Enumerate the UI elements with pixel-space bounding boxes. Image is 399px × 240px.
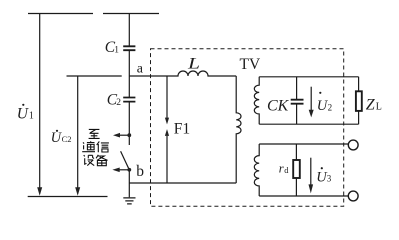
voltage arrow U3 [310, 158, 312, 185]
capacitor CK plates [291, 100, 304, 104]
wire top line left [28, 13, 93, 15]
load impedance ZL box [356, 91, 362, 111]
damping resistor rd branch [295, 144, 297, 196]
secondary loop 2 bottom wire [259, 195, 348, 197]
svg-text:3: 3 [327, 174, 332, 184]
svg-text:U: U [17, 105, 30, 122]
dashed box TV [151, 49, 344, 207]
switch blade [121, 151, 130, 170]
secondary loop 1 top wire [259, 76, 358, 78]
capacitor C2 [123, 98, 135, 102]
capacitor CK branch [296, 77, 298, 124]
wire C1 to C2 through node a [128, 50, 130, 97]
wire node a to TV with inductor L [129, 71, 236, 76]
transformer secondary winding 2 [254, 144, 259, 196]
wire node b to ground [128, 170, 130, 198]
svg-text:r: r [279, 162, 284, 176]
junction dot b [127, 168, 131, 172]
hanzi 至 [89, 129, 100, 138]
svg-text:L: L [187, 55, 200, 72]
arrowhead F1 down [165, 118, 169, 125]
hanzi 设 [84, 155, 95, 166]
arrowhead U1 [37, 187, 42, 195]
spark gap F1 upper electrode [166, 76, 168, 118]
wire HV vertical to C1 [128, 14, 130, 47]
wire mid tap horizontal [67, 75, 122, 77]
svg-text:2: 2 [116, 98, 121, 108]
wire primary bottom [129, 182, 236, 184]
label rd [279, 162, 290, 176]
svg-text:CK: CK [267, 98, 290, 115]
hanzi 通 [82, 141, 95, 151]
arrowhead UC2 [75, 187, 80, 195]
label C1 [105, 39, 119, 56]
wire C2 to switch contact [128, 102, 130, 145]
hanzi 信 [97, 141, 109, 152]
secondary loop 1 bottom wire [259, 123, 358, 125]
voltage arrow U2 [310, 87, 312, 110]
svg-text:b: b [136, 163, 144, 180]
svg-text:2: 2 [328, 103, 333, 113]
terminal circle lower [348, 191, 358, 201]
spark gap F1 lower electrode [166, 136, 168, 183]
ground symbol [123, 198, 135, 204]
arrowhead tap upper [113, 133, 120, 138]
secondary loop 2 top wire [259, 143, 348, 145]
label U1 [17, 104, 34, 123]
wire top line right [103, 13, 159, 15]
svg-text:TV: TV [240, 56, 261, 73]
secondary loop 1 right edge [358, 77, 360, 124]
label U3 [316, 167, 332, 185]
svg-text:F1: F1 [174, 121, 190, 138]
capacitor C1 [123, 46, 135, 50]
label UC2 [51, 130, 72, 146]
svg-text:L: L [376, 102, 382, 113]
voltage arrow U1 line [39, 14, 41, 189]
svg-text:a: a [137, 61, 144, 76]
arrowhead U2 [309, 110, 314, 118]
junction dot upper tap [127, 133, 131, 137]
arrowhead tap lower [112, 168, 119, 173]
wire bottom reference line [28, 196, 108, 198]
transformer primary winding [236, 76, 241, 183]
svg-text:1: 1 [114, 45, 119, 55]
transformer secondary winding 1 [254, 77, 259, 124]
hanzi 备 [96, 155, 108, 166]
svg-text:Z: Z [366, 96, 376, 113]
svg-text:1: 1 [29, 111, 34, 122]
wire tap arrow lower shaft [120, 169, 130, 171]
label ZL [366, 96, 382, 113]
svg-text:d: d [284, 165, 289, 175]
svg-text:C2: C2 [62, 134, 72, 144]
voltage arrow UC2 line [77, 76, 79, 188]
damping resistor rd box [293, 160, 300, 178]
arrowhead F1 up [165, 129, 169, 136]
wire tap arrow upper shaft [120, 134, 130, 136]
label C2 [107, 92, 121, 109]
label U2 [317, 92, 332, 114]
terminal circle upper [348, 140, 358, 150]
arrowhead U3 [309, 184, 314, 193]
